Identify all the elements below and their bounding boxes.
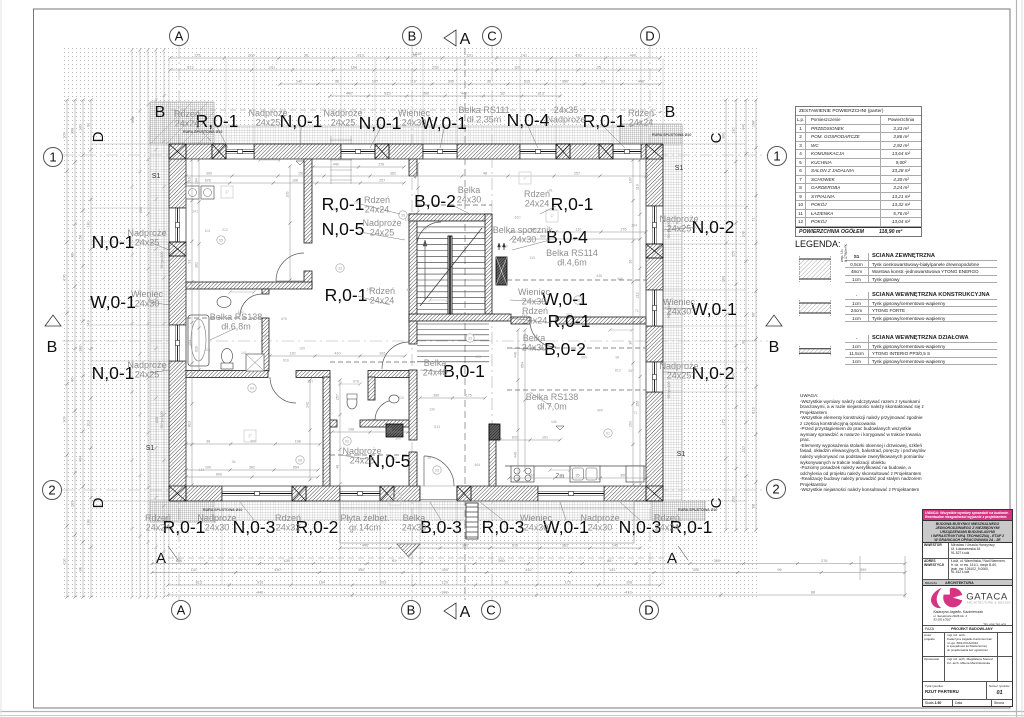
- svg-text:440: 440: [333, 163, 339, 167]
- svg-text:08: 08: [298, 459, 302, 463]
- svg-text:B: B: [665, 104, 676, 121]
- svg-text:257: 257: [336, 394, 340, 400]
- svg-text:88: 88: [71, 253, 75, 257]
- svg-text:610: 610: [529, 474, 535, 478]
- svg-text:300: 300: [620, 474, 626, 478]
- scale row: [923, 700, 1012, 708]
- corner extension lines: [168, 58, 170, 144]
- svg-text:D: D: [90, 497, 107, 508]
- beam RS138 bathroom: [186, 317, 262, 319]
- svg-text:36: 36: [206, 440, 210, 444]
- axis circle B top: [403, 27, 422, 46]
- svg-text:05: 05: [219, 239, 223, 243]
- svg-text:Nadproże: Nadproże: [362, 218, 401, 228]
- svg-text:dł.2,35m: dł.2,35m: [467, 115, 502, 125]
- svg-text:C: C: [487, 29, 496, 44]
- svg-text:Rdzeń: Rdzeń: [145, 513, 171, 523]
- reinforced concrete columns rdzen: [169, 144, 186, 159]
- svg-text:C: C: [708, 132, 725, 143]
- svg-text:36: 36: [500, 92, 504, 96]
- roof overhang band texture right: [663, 144, 682, 501]
- windows in right wall: [646, 206, 663, 244]
- svg-text:24x24: 24x24: [146, 523, 171, 533]
- svg-text:203: 203: [286, 192, 290, 198]
- svg-text:24x35: 24x35: [554, 105, 579, 115]
- svg-text:Belka RS111: Belka RS111: [458, 105, 509, 115]
- svg-text:464: 464: [474, 463, 480, 467]
- svg-text:36: 36: [304, 54, 308, 58]
- svg-text:410: 410: [625, 591, 631, 595]
- svg-text:B: B: [408, 29, 417, 44]
- bottom-left room right wall V6: [323, 377, 330, 486]
- svg-text:654: 654: [293, 466, 299, 470]
- svg-text:Wieniec: Wieniec: [398, 108, 431, 118]
- svg-text:71: 71: [633, 411, 637, 415]
- svg-text:N,0-1: N,0-1: [359, 113, 402, 133]
- top dimension chain row 2: [170, 69, 660, 71]
- svg-text:107: 107: [63, 132, 67, 138]
- corner drain patch top-left: [150, 102, 214, 144]
- svg-text:257: 257: [628, 369, 634, 373]
- svg-text:110: 110: [742, 446, 746, 452]
- svg-text:440: 440: [274, 568, 280, 572]
- svg-text:120: 120: [442, 581, 448, 585]
- svg-text:813: 813: [538, 92, 544, 96]
- svg-text:95 hp=100: 95 hp=100: [667, 381, 671, 398]
- windows in left wall: [169, 208, 186, 242]
- bottom dimension chain row 4: [168, 584, 660, 586]
- site stipple dot field: [64, 48, 759, 597]
- svg-text:35: 35: [597, 66, 601, 70]
- svg-text:35: 35: [487, 80, 491, 84]
- svg-text:Belka: Belka: [424, 358, 447, 368]
- svg-text:203: 203: [71, 501, 75, 507]
- outer wall left: [169, 159, 186, 208]
- svg-text:150: 150: [298, 172, 304, 176]
- right dimension chains: [725, 100, 727, 530]
- svg-text:678: 678: [281, 317, 287, 321]
- svg-text:95 hp=100: 95 hp=100: [160, 411, 164, 428]
- svg-text:276: 276: [821, 559, 827, 563]
- staircase lower flight treads: [417, 323, 489, 325]
- svg-text:24x32: 24x32: [276, 523, 301, 533]
- entrance door arc: [424, 456, 454, 486]
- svg-text:362: 362: [195, 262, 199, 268]
- svg-text:400: 400: [442, 568, 448, 572]
- beam RS138 right room: [507, 389, 646, 391]
- svg-text:Nadproże: Nadproże: [323, 108, 362, 118]
- svg-text:35: 35: [504, 581, 508, 585]
- wc2 toilet: [347, 395, 357, 409]
- svg-text:141: 141: [241, 351, 247, 355]
- extra interior dims corridor: [270, 355, 405, 357]
- svg-text:142: 142: [87, 320, 91, 326]
- svg-text:813: 813: [752, 407, 756, 413]
- svg-text:440: 440: [742, 124, 746, 130]
- legend wall type S1 exterior: [797, 252, 997, 254]
- shaft near entrance: [386, 424, 403, 437]
- building interior floor: [169, 144, 663, 501]
- bottom dimension chain row 5: [168, 594, 905, 596]
- wc door arc: [375, 400, 395, 420]
- svg-text:24x30: 24x30: [512, 235, 537, 245]
- extra interior dimension rows salon: [511, 231, 646, 233]
- svg-text:R,0-1: R,0-1: [548, 311, 591, 331]
- svg-text:130: 130: [79, 124, 83, 130]
- axis circle 1 left: [44, 148, 63, 167]
- svg-text:S1: S1: [675, 165, 684, 172]
- svg-text:678: 678: [261, 335, 267, 339]
- axis line C vertical: [491, 46, 493, 601]
- left dimension chains inner: [131, 50, 133, 597]
- svg-text:93-192 ŁÓDŹ: 93-192 ŁÓDŹ: [933, 616, 950, 621]
- svg-text:610: 610: [195, 346, 199, 352]
- extra interior dims bottom-left room: [186, 469, 318, 471]
- axis line A vertical: [178, 46, 180, 601]
- svg-text:A: A: [177, 603, 186, 618]
- svg-text:198: 198: [295, 440, 301, 444]
- svg-text:Rdzeń: Rdzeń: [174, 109, 200, 119]
- uwaga notes block: [800, 393, 928, 493]
- svg-text:Belka: Belka: [458, 185, 481, 195]
- svg-text:390: 390: [358, 568, 364, 572]
- window extension lines to dimension chains: [225, 58, 227, 144]
- svg-text:Rdzeń: Rdzeń: [275, 513, 301, 523]
- svg-text:Płyta żelbet.: Płyta żelbet.: [340, 513, 389, 523]
- legend U-value note: [840, 244, 848, 262]
- axis circle A bottom: [172, 601, 191, 620]
- svg-text:24x24: 24x24: [655, 523, 680, 533]
- svg-text:R,0-1: R,0-1: [551, 194, 594, 214]
- svg-text:24x30: 24x30: [524, 523, 549, 533]
- svg-text:141: 141: [191, 568, 197, 572]
- svg-text:276: 276: [378, 163, 384, 167]
- svg-text:24x30: 24x30: [402, 118, 427, 128]
- svg-text:813: 813: [357, 54, 363, 58]
- svg-text:390: 390: [433, 394, 439, 398]
- faza row: [923, 626, 1012, 633]
- logo crescent: [931, 587, 942, 607]
- svg-text:446: 446: [551, 420, 557, 424]
- svg-text:Wieniec: Wieniec: [131, 289, 164, 299]
- svg-text:Nadproże: Nadproże: [659, 214, 698, 224]
- svg-text:101: 101: [87, 221, 91, 227]
- svg-text:150: 150: [636, 401, 640, 407]
- svg-text:24x30: 24x30: [457, 195, 482, 205]
- svg-text:A: A: [460, 604, 471, 621]
- wc right wall V8: [368, 377, 375, 400]
- svg-text:24x30: 24x30: [205, 523, 230, 533]
- door arc V2: [382, 342, 409, 369]
- svg-text:813: 813: [196, 581, 202, 585]
- svg-text:S1: S1: [152, 173, 161, 180]
- svg-text:Wieniec: Wieniec: [663, 297, 696, 307]
- svg-text:390: 390: [206, 172, 212, 176]
- interior wall V3b lower: [489, 424, 496, 486]
- svg-text:96: 96: [777, 568, 781, 572]
- svg-text:203: 203: [380, 581, 386, 585]
- outer wall right: [646, 159, 663, 206]
- svg-text:130: 130: [87, 519, 91, 525]
- bottom dimension chain row 3: [152, 572, 905, 574]
- interior wall V1 between left rooms and hall: [304, 159, 312, 243]
- logo circle with notch: [943, 587, 963, 607]
- axis circle 2 left: [43, 481, 62, 500]
- corner drain patch bottom-right: [652, 501, 705, 520]
- interior dim rows lower: [186, 443, 320, 445]
- section axis line B horizontal: [62, 340, 768, 342]
- vent symbols: [336, 264, 344, 272]
- svg-text:110: 110: [410, 80, 416, 84]
- svg-text:130: 130: [732, 128, 736, 134]
- svg-text:Belka: Belka: [403, 513, 426, 523]
- svg-text:362: 362: [79, 345, 83, 351]
- svg-text:175: 175: [194, 54, 200, 58]
- svg-text:B,0-1: B,0-1: [443, 361, 485, 381]
- title block: [922, 509, 1013, 707]
- exterior entry stair: [466, 503, 478, 539]
- svg-text:dł.7,0m: dł.7,0m: [537, 402, 567, 412]
- svg-text:400: 400: [406, 288, 412, 292]
- stair bottom wall H1: [409, 314, 511, 321]
- svg-text:464: 464: [79, 456, 83, 462]
- area summary table: [795, 106, 922, 237]
- svg-text:Rdzeń: Rdzeń: [364, 195, 390, 205]
- svg-text:Belka RS138: Belka RS138: [210, 312, 263, 322]
- svg-text:141: 141: [521, 54, 527, 58]
- svg-text:916: 916: [257, 581, 263, 585]
- svg-text:362: 362: [249, 466, 255, 470]
- svg-text:1: 1: [773, 149, 780, 164]
- svg-text:390: 390: [722, 276, 726, 282]
- svg-text:Nadproże: Nadproże: [659, 361, 698, 371]
- drawing name row: [923, 682, 1012, 700]
- interior dim col right room: [632, 160, 634, 485]
- svg-text:410: 410: [525, 568, 531, 572]
- svg-text:N,0-4: N,0-4: [507, 110, 550, 130]
- svg-text:446: 446: [514, 352, 518, 358]
- svg-text:257: 257: [307, 380, 313, 384]
- door arc H6: [530, 321, 556, 347]
- svg-text:B: B: [407, 603, 416, 618]
- vent arrows at chimney: [498, 243, 500, 250]
- staircase center stringer: [448, 236, 452, 314]
- svg-text:48: 48: [336, 465, 340, 469]
- svg-text:RURA SPUSTOWA Ø10: RURA SPUSTOWA Ø10: [652, 133, 691, 137]
- svg-text:164: 164: [631, 223, 637, 227]
- svg-text:24x24: 24x24: [629, 118, 654, 128]
- magenta warning banner: [923, 510, 1012, 521]
- svg-text:390: 390: [498, 559, 504, 563]
- axis circle 2 right: [767, 480, 786, 499]
- svg-text:100: 100: [299, 347, 305, 351]
- page edge shadow lines: [1016, 0, 1018, 717]
- interior dim row top rooms: [186, 175, 646, 177]
- svg-text:2: 2: [772, 482, 779, 497]
- svg-text:142: 142: [386, 428, 392, 432]
- svg-text:R,0-2: R,0-2: [296, 517, 339, 537]
- bathroom door arc: [240, 294, 262, 316]
- svg-text:91: 91: [392, 559, 396, 563]
- svg-text:B,0-2: B,0-2: [414, 191, 456, 211]
- branza band: [923, 580, 1012, 586]
- svg-text:276: 276: [63, 274, 67, 280]
- level marker symbols: [296, 161, 304, 165]
- svg-text:130: 130: [429, 407, 435, 411]
- svg-text:130: 130: [405, 218, 411, 222]
- svg-text:A: A: [667, 550, 677, 567]
- svg-text:96: 96: [615, 355, 619, 359]
- kitchen counter: [505, 465, 646, 467]
- outer wall bottom: [169, 486, 222, 501]
- svg-text:Belka RS138: Belka RS138: [526, 392, 579, 402]
- svg-text:813: 813: [187, 66, 193, 70]
- svg-text:916: 916: [380, 352, 386, 356]
- svg-text:ARCHITECTURE & DESIGN: ARCHITECTURE & DESIGN: [967, 600, 1011, 604]
- svg-text:300: 300: [395, 436, 401, 440]
- svg-text:141: 141: [609, 568, 615, 572]
- svg-text:Rdzeń: Rdzeń: [654, 513, 680, 523]
- svg-text:142: 142: [296, 80, 302, 84]
- extra interior dims top-left room: [289, 166, 291, 280]
- svg-text:362: 362: [390, 172, 396, 176]
- svg-text:446: 446: [414, 173, 418, 179]
- svg-text:164: 164: [319, 581, 325, 585]
- svg-text:Rdzeń: Rdzeń: [522, 306, 548, 316]
- svg-text:D: D: [645, 29, 654, 44]
- svg-text:1: 1: [49, 150, 56, 165]
- svg-text:142: 142: [306, 402, 310, 408]
- axis circle D top: [641, 27, 660, 46]
- inner wall face lines: [185, 159, 187, 486]
- kitchen stove: [511, 466, 534, 482]
- beam RS114 right room: [507, 279, 646, 281]
- svg-text:33: 33: [338, 267, 342, 271]
- chimney shaft V4: [496, 257, 507, 285]
- svg-text:A: A: [156, 550, 166, 567]
- svg-text:96: 96: [742, 340, 746, 344]
- svg-text:257: 257: [379, 179, 385, 183]
- svg-text:203: 203: [629, 421, 633, 427]
- svg-text:108: 108: [441, 591, 447, 595]
- svg-text:600: 600: [216, 473, 222, 477]
- svg-text:257: 257: [574, 172, 580, 176]
- svg-text:W,0-1: W,0-1: [90, 292, 136, 312]
- axis line D vertical: [649, 46, 651, 601]
- svg-text:36: 36: [629, 341, 633, 345]
- bottom dimension chain row 2: [152, 563, 905, 565]
- svg-text:813: 813: [384, 92, 390, 96]
- svg-text:110: 110: [514, 66, 520, 70]
- svg-text:107: 107: [629, 177, 633, 183]
- svg-text:88: 88: [752, 504, 756, 508]
- svg-text:S1: S1: [677, 451, 686, 458]
- svg-text:600: 600: [176, 559, 182, 563]
- gataca logo: [923, 586, 1012, 626]
- interior wall H6 right rooms divider: [511, 317, 530, 324]
- svg-text:24x25: 24x25: [331, 118, 356, 128]
- svg-text:212: 212: [636, 292, 640, 298]
- svg-text:36: 36: [629, 260, 633, 264]
- svg-text:RURA SPUSTOWA Ø10: RURA SPUSTOWA Ø10: [203, 508, 242, 512]
- svg-text:Nadproże: Nadproże: [342, 446, 381, 456]
- svg-text:203: 203: [732, 496, 736, 502]
- svg-text:446: 446: [596, 274, 602, 278]
- svg-text:24x40: 24x40: [423, 368, 448, 378]
- svg-text:813: 813: [188, 421, 192, 427]
- svg-text:141: 141: [198, 468, 204, 472]
- svg-text:175: 175: [466, 394, 472, 398]
- windows in bottom wall: [222, 486, 292, 501]
- svg-text:253: 253: [432, 66, 438, 70]
- kitchen sink double: [570, 466, 600, 482]
- svg-text:257: 257: [732, 250, 736, 256]
- svg-text:91: 91: [188, 260, 192, 264]
- svg-text:24x30: 24x30: [402, 523, 427, 533]
- axis circle C top: [483, 27, 502, 46]
- door arc V1: [276, 253, 304, 281]
- interior dim col left rooms: [191, 160, 193, 485]
- top dimension chain row 4: [330, 95, 560, 97]
- left dimension chains outer: [66, 100, 68, 597]
- svg-text:91: 91: [601, 80, 605, 84]
- section line A vertical: [464, 48, 466, 600]
- svg-text:N,0-5: N,0-5: [322, 219, 365, 239]
- beam N0-5 lower: [330, 454, 409, 456]
- svg-text:390: 390: [71, 128, 75, 134]
- beam over corridor: [330, 361, 416, 363]
- roof overhang band texture bottom: [150, 501, 682, 520]
- svg-text:150: 150: [79, 235, 83, 241]
- svg-text:813: 813: [434, 425, 440, 429]
- svg-text:02: 02: [345, 440, 349, 444]
- corner drain patch bottom-left: [150, 501, 214, 522]
- svg-text:B,0-2: B,0-2: [544, 339, 586, 359]
- svg-text:198: 198: [752, 121, 756, 127]
- svg-text:300: 300: [448, 80, 454, 84]
- svg-text:24x24: 24x24: [523, 316, 548, 326]
- section marker A bottom: [444, 603, 456, 619]
- svg-text:600: 600: [131, 117, 135, 123]
- svg-text:96: 96: [335, 80, 339, 84]
- svg-text:24x25: 24x25: [135, 370, 160, 380]
- svg-text:678: 678: [205, 179, 211, 183]
- svg-text:362: 362: [562, 544, 568, 548]
- svg-text:Rdzeń: Rdzeń: [524, 189, 550, 199]
- wc2 sink: [389, 395, 399, 403]
- svg-text:24x25: 24x25: [256, 118, 281, 128]
- svg-text:813: 813: [524, 80, 530, 84]
- svg-text:24x30: 24x30: [135, 299, 160, 309]
- svg-text:101: 101: [205, 229, 211, 233]
- legend wall interior partition: [797, 334, 997, 336]
- leader lines from labels: [217, 127, 228, 148]
- svg-text:88: 88: [607, 559, 611, 563]
- svg-text:Rdzeń: Rdzeń: [628, 108, 654, 118]
- svg-text:108: 108: [292, 179, 298, 183]
- svg-text:108: 108: [626, 581, 632, 585]
- svg-text:108: 108: [742, 231, 746, 237]
- svg-text:1015: 1015: [413, 51, 423, 56]
- svg-text:400: 400: [597, 408, 603, 412]
- svg-text:390: 390: [562, 80, 568, 84]
- bathroom top wall H4: [186, 282, 312, 289]
- shower: [246, 354, 264, 371]
- svg-text:D: D: [90, 131, 107, 142]
- staircase arrow: [424, 240, 426, 300]
- legend wall interior structural: [797, 291, 997, 293]
- terrace slab outline: [340, 501, 634, 543]
